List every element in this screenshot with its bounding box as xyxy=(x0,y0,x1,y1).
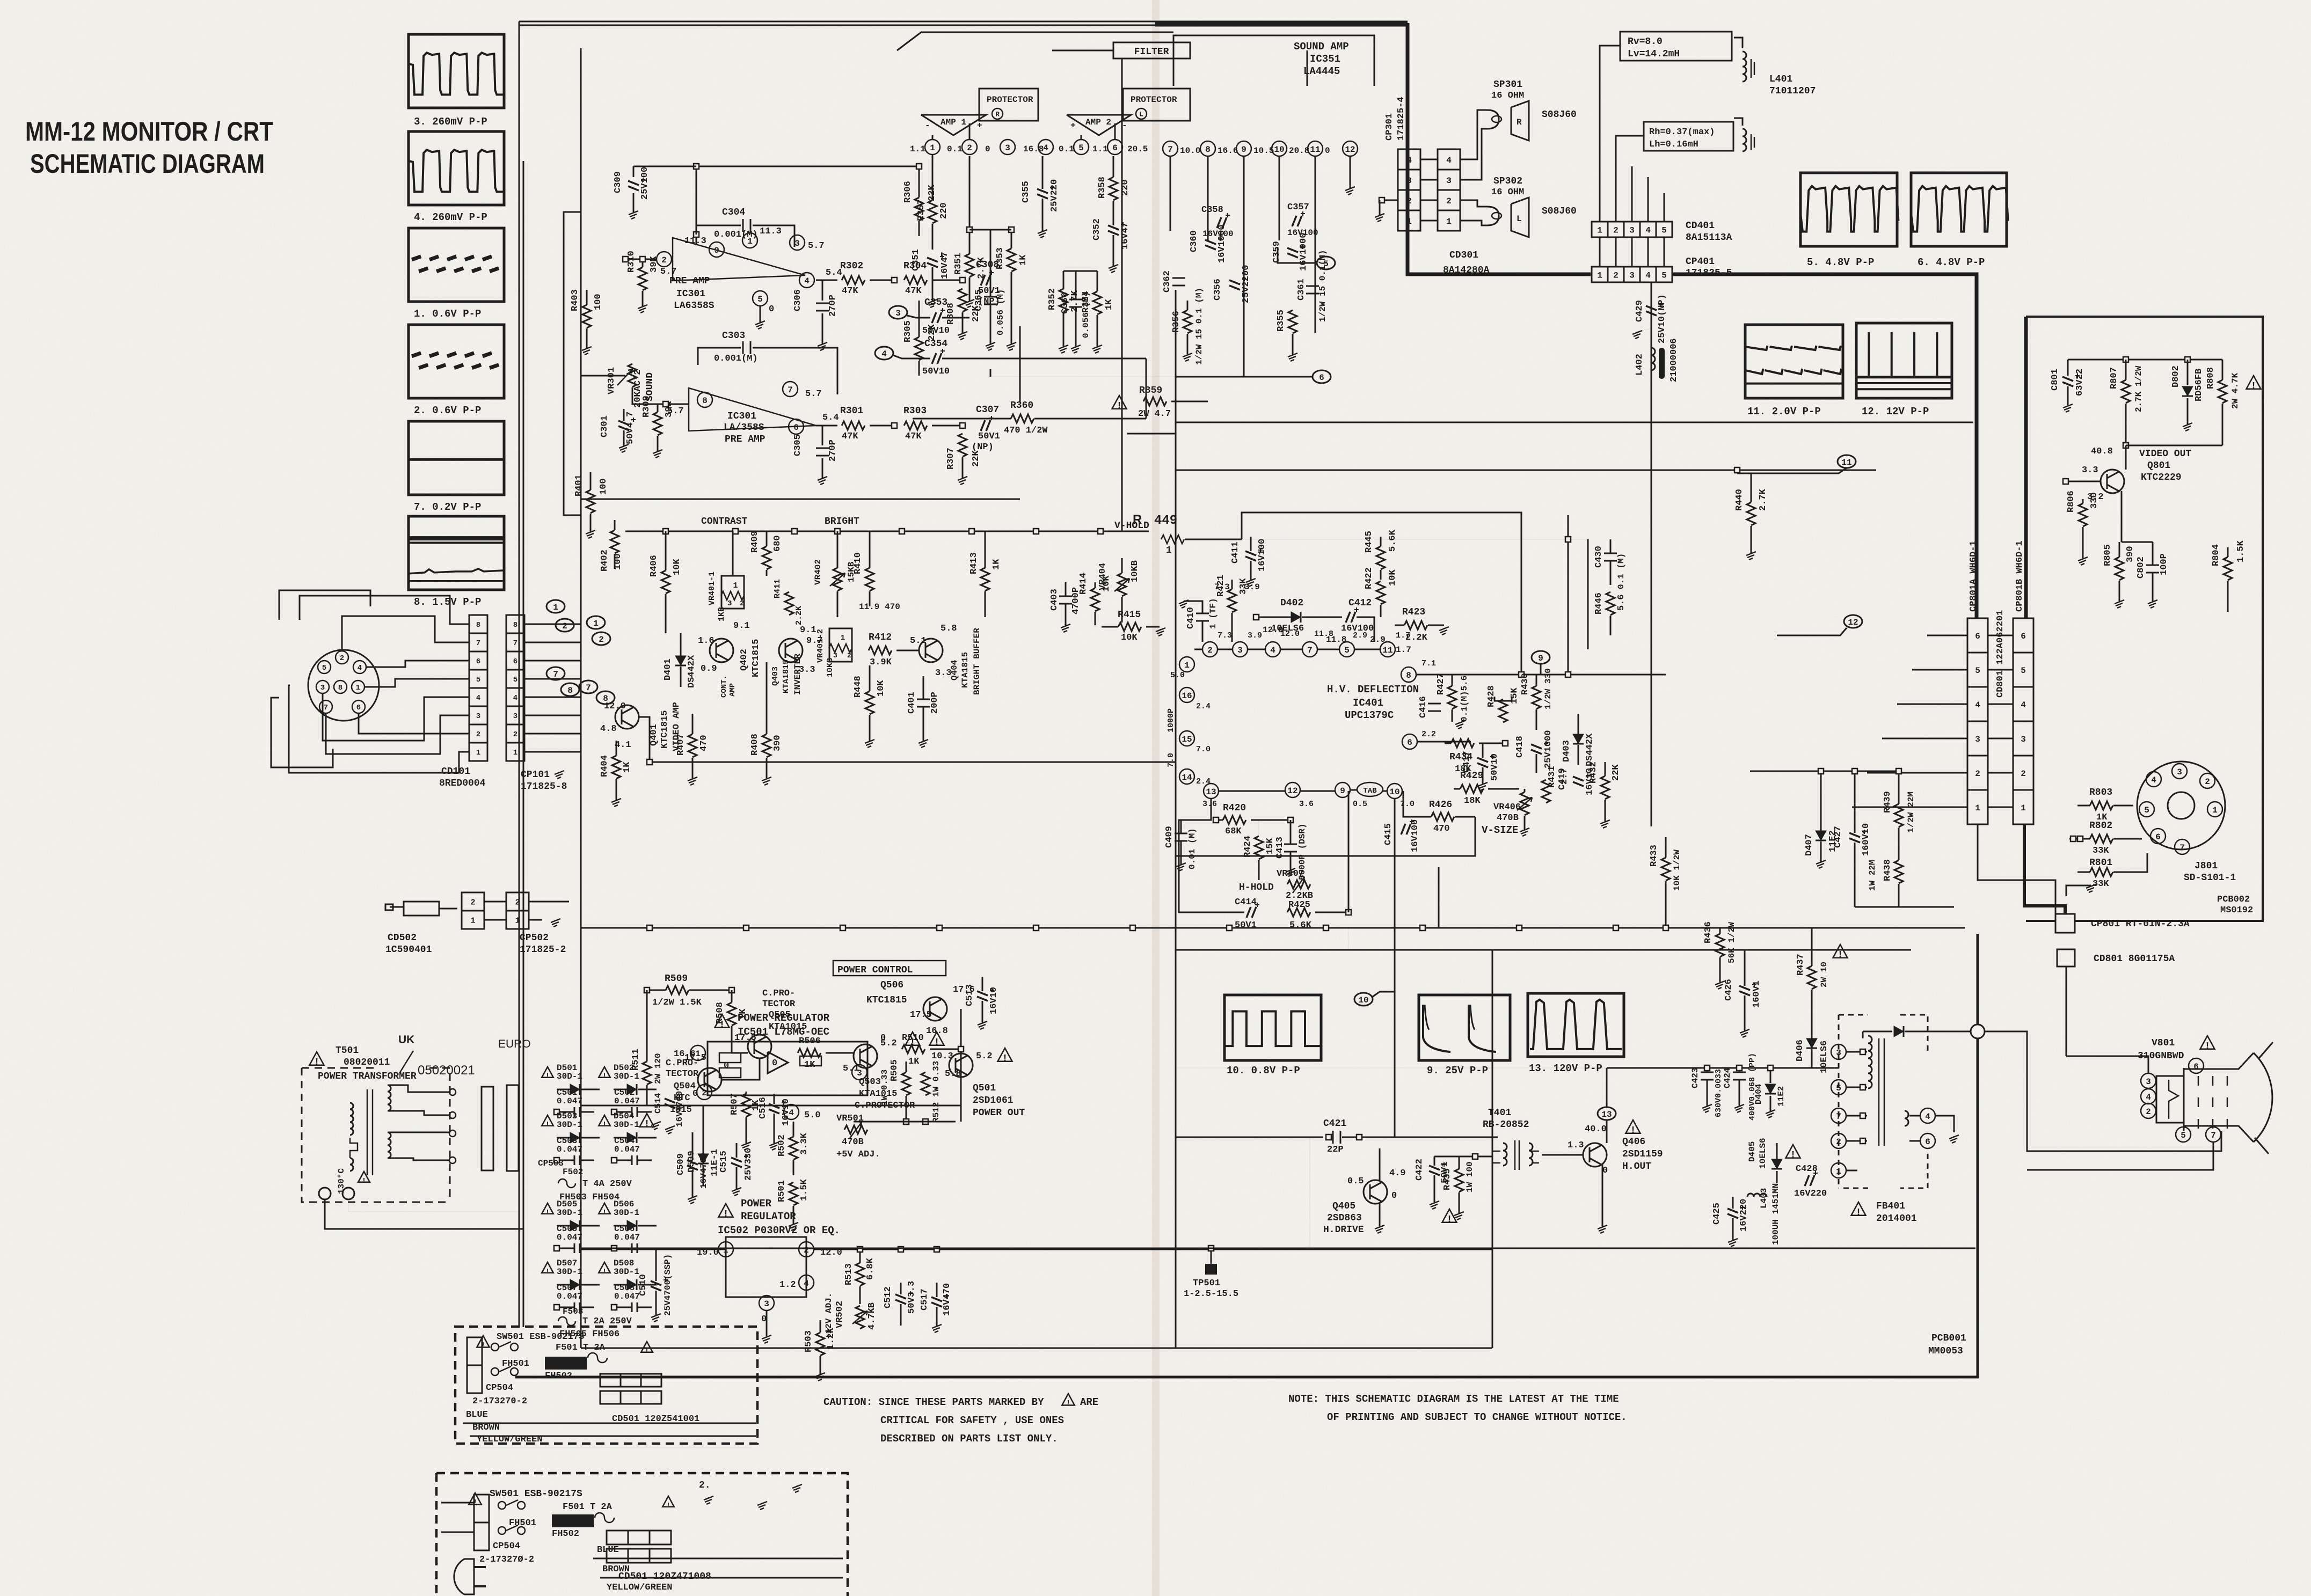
svg-text:Lv=14.2mH: Lv=14.2mH xyxy=(1628,49,1680,60)
junction y1990 xyxy=(1704,1065,1710,1071)
connector CP101 strip 8 cells xyxy=(506,615,524,633)
svg-text:7.1: 7.1 xyxy=(1421,659,1436,668)
svg-text:1: 1 xyxy=(841,634,845,642)
svg-text:1K: 1K xyxy=(1018,254,1029,266)
svg-text:RB-20852: RB-20852 xyxy=(1483,1119,1529,1130)
svg-text:C356: C356 xyxy=(1213,279,1223,301)
wire VR301 tap to pin8 xyxy=(632,387,689,404)
svg-text:2: 2 xyxy=(513,730,517,739)
svg-text:8: 8 xyxy=(702,396,708,406)
svg-text:C509: C509 xyxy=(676,1153,686,1175)
svg-text:0: 0 xyxy=(1391,1191,1397,1201)
svg-text:7: 7 xyxy=(1836,1112,1841,1122)
svg-text:5. 4.8V P-P: 5. 4.8V P-P xyxy=(1807,257,1874,268)
svg-text:390: 390 xyxy=(2125,546,2135,562)
svg-text:R411: R411 xyxy=(773,579,782,598)
wires CP301-CD301 xyxy=(1420,159,1438,160)
svg-text:CP801 RT-01N-2.3A: CP801 RT-01N-2.3A xyxy=(2091,919,2190,929)
svg-text:7.3: 7.3 xyxy=(1218,631,1232,640)
svg-text:100: 100 xyxy=(599,478,609,495)
transformer T401 RB-20852 xyxy=(1503,1143,1507,1166)
transistor Q402 KTC1815 xyxy=(710,639,733,662)
pot VR501 470B +5V ADJ xyxy=(844,1125,867,1134)
J801 pin 7 xyxy=(2175,839,2190,854)
capacitor C428 16V220 xyxy=(1805,1175,1814,1186)
wire pin9 down xyxy=(1243,156,1245,377)
svg-text:L403: L403 xyxy=(1759,1188,1769,1209)
resistor R308 22K vertical xyxy=(958,289,967,312)
svg-text:6: 6 xyxy=(1975,632,1980,641)
svg-text:R307: R307 xyxy=(946,448,956,470)
capacitor C424 400V0.068(PP) xyxy=(1733,1072,1746,1080)
wire vsize loop xyxy=(1403,791,1421,817)
CD101 pin 3 xyxy=(316,680,329,693)
svg-text:15K: 15K xyxy=(1265,838,1275,854)
wire bus x=2090 vertical xyxy=(1121,59,1123,531)
IC351 pin row 1-6 xyxy=(925,140,940,155)
svg-text:YELLOW/GREEN: YELLOW/GREEN xyxy=(477,1434,542,1445)
svg-text:1: 1 xyxy=(515,916,520,925)
svg-text:1: 1 xyxy=(2212,806,2218,815)
wire vertical x=2921 xyxy=(1568,515,1569,675)
svg-text:C355: C355 xyxy=(1021,181,1031,203)
svg-text:4: 4 xyxy=(1975,700,1980,710)
svg-text:R801: R801 xyxy=(2089,858,2112,868)
svg-text:C515: C515 xyxy=(719,1151,729,1173)
svg-text:F503: F503 xyxy=(563,1307,583,1316)
svg-text:CD801 122A062201: CD801 122A062201 xyxy=(1995,610,2006,698)
connector CP801B 6-pin strip xyxy=(2013,618,2033,653)
svg-text:KTA1815: KTA1815 xyxy=(782,660,791,693)
svg-text:3: 3 xyxy=(764,1299,769,1309)
svg-text:5: 5 xyxy=(322,664,326,672)
wire 12V rail out xyxy=(581,1249,814,1250)
svg-text:100UH 1451MN: 100UH 1451MN xyxy=(1771,1183,1781,1245)
IC401 pin 8 xyxy=(1401,667,1416,682)
J801 pin 1 xyxy=(2207,802,2222,817)
pin 6 of IC301b xyxy=(789,419,804,434)
resistor R407 470 vertical xyxy=(688,734,697,757)
J801 pin 4 xyxy=(2146,772,2161,787)
wire horizontal y=930 segment xyxy=(581,499,1020,500)
svg-text:FILTER: FILTER xyxy=(1134,47,1169,57)
wire pin13 down-left xyxy=(1181,799,1211,820)
svg-text:KTC1815: KTC1815 xyxy=(751,639,761,677)
dashed safety box 2 (mains plug area) xyxy=(436,1473,848,1596)
flyback secondary coil xyxy=(1905,1111,1908,1126)
svg-text:16V100: 16V100 xyxy=(1410,819,1420,852)
svg-text:6. 4.8V P-P: 6. 4.8V P-P xyxy=(1918,257,1985,268)
resistor R439 1/2W 22M vertical xyxy=(1894,804,1903,827)
svg-text:10K: 10K xyxy=(672,559,682,575)
resistor R430 1/2W 330 vertical xyxy=(1532,686,1541,709)
transistor Q506 xyxy=(923,997,947,1021)
pot VR401-1 1KB block xyxy=(721,576,744,609)
pin 5 of IC301a xyxy=(753,291,768,306)
resistor R356 1/2W 15 0.1 (M) cluster xyxy=(1183,310,1192,333)
resistor R804 1.5K vertical xyxy=(2223,557,2232,580)
CD101 pin 2 xyxy=(336,651,348,664)
svg-text:!: ! xyxy=(2251,381,2257,392)
svg-text:1.6: 1.6 xyxy=(698,636,715,646)
svg-text:0.047: 0.047 xyxy=(614,1145,640,1154)
svg-text:4: 4 xyxy=(513,694,517,702)
resistor R302 47K xyxy=(816,280,837,281)
wire pin7 down xyxy=(1170,156,1171,231)
svg-text:CP503: CP503 xyxy=(538,1159,564,1168)
svg-text:1K: 1K xyxy=(1104,299,1114,310)
op-amp AMP 2 triangle xyxy=(1067,115,1131,135)
svg-text:R428: R428 xyxy=(1486,685,1497,707)
svg-text:0: 0 xyxy=(1602,1166,1608,1176)
svg-text:REGULATOR: REGULATOR xyxy=(741,1211,796,1222)
resistor R438 1/2W 22M vertical xyxy=(1894,860,1903,883)
resistor R510 1K xyxy=(902,1045,925,1053)
svg-text:39K: 39K xyxy=(649,256,659,273)
svg-text:R502: R502 xyxy=(777,1134,787,1156)
svg-text:1-2.5-15.5: 1-2.5-15.5 xyxy=(1184,1289,1238,1299)
svg-text:9.1: 9.1 xyxy=(733,621,750,631)
svg-text:0.047: 0.047 xyxy=(557,1145,582,1154)
svg-text:UK: UK xyxy=(398,1034,414,1046)
svg-text:2: 2 xyxy=(967,143,972,153)
svg-text:1K: 1K xyxy=(992,559,1002,570)
svg-text:1: 1 xyxy=(356,684,360,692)
svg-text:0: 0 xyxy=(772,1058,777,1068)
svg-text:SOUND AMP: SOUND AMP xyxy=(1294,41,1349,53)
IC401 pin 6 xyxy=(1402,734,1417,749)
svg-text:V-HOLD: V-HOLD xyxy=(1114,521,1149,531)
junction xyxy=(967,227,972,232)
wire vertical x=2435 sound xyxy=(1307,50,1308,86)
svg-text:2.4: 2.4 xyxy=(1196,777,1211,786)
svg-text:R360: R360 xyxy=(1010,400,1033,411)
svg-text:5.6K: 5.6K xyxy=(1388,529,1398,552)
CRT grid dashes xyxy=(2198,1076,2199,1129)
wires yoke boxes to CD401 xyxy=(1600,46,1620,222)
wire horizontal y=1420 video bus right xyxy=(1175,762,1176,763)
svg-text:SP302: SP302 xyxy=(1493,176,1522,187)
svg-text:C410: C410 xyxy=(1186,607,1196,629)
resistor R415 10K xyxy=(1118,623,1141,631)
resistor R422 10K vertical xyxy=(1376,581,1385,604)
IC501 pin 4 xyxy=(784,1104,799,1119)
junction xyxy=(647,759,652,765)
svg-text:D403: D403 xyxy=(1562,740,1572,762)
wire vertical x=2190 lower xyxy=(1175,950,1177,1348)
svg-text:16 OHM: 16 OHM xyxy=(1491,91,1524,101)
svg-text:R507: R507 xyxy=(730,1093,740,1115)
svg-text:1: 1 xyxy=(2021,803,2026,813)
svg-text:POWER REGULATOR: POWER REGULATOR xyxy=(738,1012,830,1024)
wire rail y=505 xyxy=(1063,270,1097,272)
svg-text:2W 4.7K: 2W 4.7K xyxy=(2230,372,2240,409)
svg-text:2-173270-2: 2-173270-2 xyxy=(472,1396,527,1407)
svg-text:16V100: 16V100 xyxy=(1257,539,1267,572)
svg-text:4. 260mV P-P: 4. 260mV P-P xyxy=(414,211,487,223)
svg-text:4: 4 xyxy=(358,664,362,672)
svg-text:20KAC*2: 20KAC*2 xyxy=(633,370,643,408)
svg-text:3: 3 xyxy=(794,239,800,248)
resistor R360 470 1/2W xyxy=(1011,414,1034,423)
svg-text:C421: C421 xyxy=(1323,1118,1346,1129)
RCA plug CD502 symbol xyxy=(404,902,439,916)
svg-text:R432: R432 xyxy=(1588,762,1599,784)
op-amp AMP 1 triangle xyxy=(921,115,986,135)
warning triangle xyxy=(2247,376,2261,389)
svg-text:9: 9 xyxy=(1538,654,1543,663)
resistor R352 2.7K vertical xyxy=(1059,289,1068,312)
wire: long bus y=876 xyxy=(1176,470,1876,471)
speaker SP301 voice coil xyxy=(1487,110,1499,129)
wires from plug circles down xyxy=(325,1199,523,1327)
svg-text:C517: C517 xyxy=(920,1288,930,1311)
svg-text:10. 0.8V P-P: 10. 0.8V P-P xyxy=(1227,1065,1300,1077)
svg-text:L: L xyxy=(1517,214,1522,224)
svg-text:VR401-1: VR401-1 xyxy=(708,572,717,605)
svg-text:7: 7 xyxy=(476,639,480,648)
svg-text:!: ! xyxy=(934,1037,940,1048)
resistor R401 100 (left low) xyxy=(586,490,595,513)
diode D404 11E2 xyxy=(1765,1084,1776,1094)
svg-text:KTC1815: KTC1815 xyxy=(660,711,670,749)
svg-text:16V10: 16V10 xyxy=(989,987,999,1014)
svg-text:PCB002: PCB002 xyxy=(2217,895,2250,905)
svg-text:16V1000: 16V1000 xyxy=(1299,233,1309,271)
svg-text:F501 T 2A: F501 T 2A xyxy=(563,1502,613,1512)
svg-text:D401: D401 xyxy=(663,658,673,680)
svg-text:1: 1 xyxy=(1406,217,1412,226)
dashed safety box 1 (mains switch area) xyxy=(455,1327,757,1444)
resistor R446 5.6 vertical xyxy=(1606,592,1615,615)
svg-text:0: 0 xyxy=(769,304,774,314)
wire vertical x=2440 y 2119-2326 xyxy=(1309,1137,1310,1248)
svg-text:10K: 10K xyxy=(876,680,886,697)
svg-text:71011207: 71011207 xyxy=(1769,86,1816,97)
svg-text:17.5: 17.5 xyxy=(910,1010,932,1020)
svg-text:C306: C306 xyxy=(793,289,803,311)
resistor R353 1K vertical xyxy=(1007,248,1016,272)
pin 3 of IC301a xyxy=(790,235,805,250)
svg-text:5: 5 xyxy=(1836,1083,1841,1093)
wire rail from diodes right xyxy=(660,1249,708,1250)
svg-text:CONT.: CONT. xyxy=(720,675,728,698)
svg-text:3: 3 xyxy=(2021,735,2026,744)
svg-text:7.3: 7.3 xyxy=(1214,582,1230,592)
svg-text:4: 4 xyxy=(2146,1093,2151,1102)
svg-text:H-HOLD: H-HOLD xyxy=(1239,882,1274,893)
svg-text:10: 10 xyxy=(1274,145,1284,155)
wire CP801B pin1 down to CP801 (heavy) xyxy=(2024,825,2065,914)
svg-text:UPC1379C: UPC1379C xyxy=(1345,709,1394,721)
svg-text:0.047: 0.047 xyxy=(614,1292,640,1301)
svg-text:LA6358S: LA6358S xyxy=(674,301,715,311)
CRT pin 7 xyxy=(2206,1127,2221,1142)
svg-text:5: 5 xyxy=(757,295,763,304)
pin 1 of IC301a xyxy=(742,233,757,248)
svg-text:8: 8 xyxy=(567,686,573,695)
resistor R802 33K xyxy=(2090,834,2113,843)
connector CP101-left strip 8 cells xyxy=(469,615,487,633)
svg-text:R503: R503 xyxy=(804,1330,814,1352)
svg-text:!: ! xyxy=(602,1209,607,1217)
svg-text:2: 2 xyxy=(2021,769,2026,779)
speaker SP302 voice coil xyxy=(1487,207,1499,225)
svg-text:3.6: 3.6 xyxy=(1299,800,1314,809)
resistor R440 2.7K vertical xyxy=(1747,502,1755,525)
svg-text:VR401-2: VR401-2 xyxy=(816,629,825,663)
svg-text:H.OUT: H.OUT xyxy=(1622,1161,1651,1172)
svg-text:25V10(NP): 25V10(NP) xyxy=(1657,294,1667,343)
svg-text:5.7: 5.7 xyxy=(660,267,677,277)
connector CD801 square xyxy=(2057,949,2075,967)
capacitor C421 22P xyxy=(1326,1134,1331,1140)
svg-text:R359: R359 xyxy=(1139,385,1162,396)
svg-text:C516: C516 xyxy=(758,1097,768,1119)
resistor R501 1.5K vertical xyxy=(789,1182,798,1205)
IC401 pin 2 xyxy=(1202,642,1218,657)
diode D501 30D-1 xyxy=(542,1067,553,1078)
svg-text:2: 2 xyxy=(2205,777,2210,787)
svg-text:CP504: CP504 xyxy=(493,1541,520,1551)
svg-text:R446: R446 xyxy=(1594,592,1604,614)
capacitor C360 16V1000 xyxy=(1205,240,1216,250)
wire: trunk x=2190 vertical xyxy=(1175,290,1177,950)
svg-text:R: R xyxy=(995,111,1000,119)
svg-text:630V0.0033: 630V0.0033 xyxy=(1714,1069,1723,1117)
svg-text:10K: 10K xyxy=(1121,633,1138,643)
svg-text:16V4700: 16V4700 xyxy=(699,1153,709,1189)
wire to CP801A pin2 bus xyxy=(1750,771,1899,772)
resistor R806 330 vertical xyxy=(2079,503,2087,526)
svg-text:6: 6 xyxy=(476,657,480,666)
IC401 pin 4 xyxy=(1265,642,1280,657)
wire Q405 emitter gnd xyxy=(1379,1204,1381,1226)
wire Q406 collector to flyback bus xyxy=(1606,1068,1607,1107)
svg-text:11.9 470: 11.9 470 xyxy=(859,602,900,612)
svg-text:1: 1 xyxy=(733,581,738,590)
svg-text:2: 2 xyxy=(470,898,475,907)
svg-text:2: 2 xyxy=(340,654,344,663)
resistor R413 1K vertical xyxy=(981,568,989,591)
svg-text:BLUE: BLUE xyxy=(597,1545,619,1555)
svg-text:1K: 1K xyxy=(804,1060,815,1070)
transformer T501 dashed outline xyxy=(302,1068,450,1202)
resistor R502 3.3K vertical xyxy=(789,1137,798,1160)
wire bus x=2100 right segment xyxy=(1127,433,1176,435)
svg-text:D404: D404 xyxy=(1754,1083,1763,1104)
svg-text:1: 1 xyxy=(1184,661,1190,670)
svg-text:2: 2 xyxy=(599,635,604,645)
svg-text:5: 5 xyxy=(1661,270,1667,280)
svg-text:F502: F502 xyxy=(563,1167,583,1177)
node ovals 1,2,7,8 near CP101 xyxy=(546,600,565,613)
capacitor C361 0.1(M) xyxy=(1306,286,1319,294)
svg-text:16V220: 16V220 xyxy=(1739,1199,1749,1232)
transistor Q405 2SD863 H.DRIVE xyxy=(1364,1180,1387,1204)
svg-text:7: 7 xyxy=(2211,1131,2216,1140)
svg-text:7: 7 xyxy=(586,683,591,693)
svg-text:7: 7 xyxy=(1168,145,1173,155)
svg-text:BROWN: BROWN xyxy=(472,1423,500,1433)
svg-text:0.047: 0.047 xyxy=(557,1233,582,1242)
diode D508 30D-1 xyxy=(599,1262,610,1273)
svg-text:10: 10 xyxy=(1358,995,1368,1005)
svg-text:9. 25V P-P: 9. 25V P-P xyxy=(1427,1065,1488,1077)
svg-text:D402: D402 xyxy=(1280,598,1303,609)
svg-text:!: ! xyxy=(602,1121,607,1129)
svg-text:!: ! xyxy=(602,1072,607,1081)
resistor R436 56K 1/2W vertical xyxy=(1716,934,1724,957)
svg-text:25V2200: 25V2200 xyxy=(1241,265,1251,303)
label POWER CONTROL Q506 xyxy=(833,961,946,976)
svg-text:470: 470 xyxy=(1433,824,1450,834)
svg-text:5.0: 5.0 xyxy=(804,1110,821,1121)
wire pin10 down xyxy=(1279,156,1280,240)
wire Q801 emitter down xyxy=(2121,491,2123,542)
wire node5 xyxy=(1278,247,1317,263)
junction xyxy=(960,277,965,283)
resistor R412 3.9K xyxy=(869,646,892,655)
svg-text:!: ! xyxy=(1790,1150,1796,1161)
svg-text:11E2: 11E2 xyxy=(1776,1086,1786,1107)
IC502 pin 3 xyxy=(759,1295,774,1311)
svg-text:4: 4 xyxy=(1925,1112,1930,1122)
svg-text:R357: R357 xyxy=(916,199,927,221)
svg-text:1/2W 15 0.1 (M): 1/2W 15 0.1 (M) xyxy=(1194,288,1204,365)
diode D504 30D-1 xyxy=(599,1115,610,1126)
svg-text:25V4700(SSP): 25V4700(SSP) xyxy=(663,1254,673,1316)
svg-text:22K: 22K xyxy=(1611,764,1621,781)
svg-text:R306: R306 xyxy=(903,181,913,203)
svg-text:R303: R303 xyxy=(903,406,927,416)
wires CD502-CP502 xyxy=(484,901,506,903)
wire CD301 pin4 to speaker R xyxy=(1460,110,1487,159)
svg-text:R412: R412 xyxy=(869,632,892,643)
svg-text:R430: R430 xyxy=(1520,673,1530,695)
svg-text:C512: C512 xyxy=(883,1286,893,1308)
wire pin5 to ground xyxy=(760,306,761,322)
svg-text:6: 6 xyxy=(2021,632,2026,641)
resistor R403 100 (left) xyxy=(582,305,591,328)
resistor R509 1/2W 1.5K xyxy=(666,986,689,994)
wire: heavy trace PCB002 left edge down to CP801B pin6 xyxy=(2024,317,2028,618)
wire flyback bus y=1990 left part xyxy=(1176,1067,1605,1068)
capacitor C410 1 (TF) xyxy=(1196,613,1209,621)
svg-text:56K 1/2W: 56K 1/2W xyxy=(1727,922,1737,963)
svg-text:171825-5: 171825-5 xyxy=(1686,268,1732,279)
resistor R506 1K xyxy=(798,1049,821,1057)
svg-text:Q402: Q402 xyxy=(739,649,749,671)
svg-text:MS0192: MS0192 xyxy=(2220,905,2253,916)
IC401 pin 11 xyxy=(1380,642,1395,657)
svg-text:8A14280A: 8A14280A xyxy=(1443,265,1490,276)
svg-text:R429: R429 xyxy=(1460,771,1483,781)
waveform box 11 (2.0V P-P) xyxy=(1745,325,1843,398)
resistor R423 2.2K xyxy=(1404,621,1427,629)
capacitor C362 vertical xyxy=(1172,278,1185,285)
svg-text:1.7: 1.7 xyxy=(1396,631,1410,640)
svg-text:CRITICAL FOR SAFETY , USE ONE: CRITICAL FOR SAFETY , USE ONES xyxy=(880,1415,1064,1426)
J801 pin 5 xyxy=(2139,802,2154,817)
svg-text:2: 2 xyxy=(1613,225,1619,235)
svg-text:8: 8 xyxy=(1406,671,1411,680)
svg-text:CP301: CP301 xyxy=(1384,113,1395,141)
connector CD401 5-cell strip xyxy=(1592,222,1608,237)
svg-text:C416: C416 xyxy=(1418,696,1428,718)
svg-text:12. 12V P-P: 12. 12V P-P xyxy=(1862,406,1929,418)
svg-text:5.6K: 5.6K xyxy=(1289,920,1312,931)
